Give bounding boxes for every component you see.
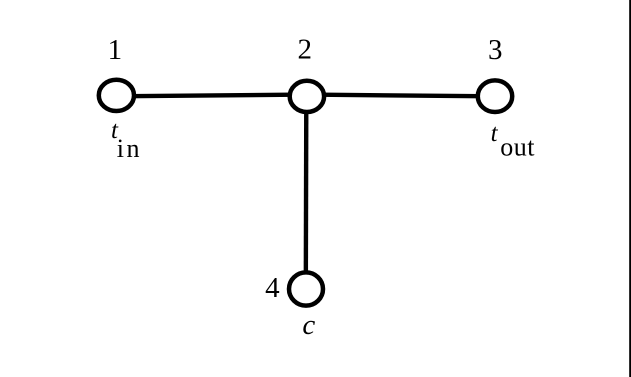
svg-text:in: in	[117, 134, 142, 163]
node 4 circle	[289, 272, 323, 305]
svg-text:3: 3	[488, 34, 503, 66]
svg-text:out: out	[500, 133, 535, 162]
wire edge 2-4	[304, 96, 309, 289]
node 1 circle	[99, 80, 134, 111]
svg-text:c: c	[302, 309, 315, 341]
right border line	[629, 0, 631, 377]
node 2 circle	[290, 81, 324, 112]
node 3 circle	[478, 80, 512, 112]
svg-text:4: 4	[265, 272, 280, 304]
wire edge 1-2	[117, 95, 307, 97]
svg-text:1: 1	[108, 34, 123, 66]
wire edge 2-3	[307, 95, 495, 97]
svg-text:2: 2	[298, 34, 313, 66]
svg-text:t: t	[491, 120, 499, 147]
